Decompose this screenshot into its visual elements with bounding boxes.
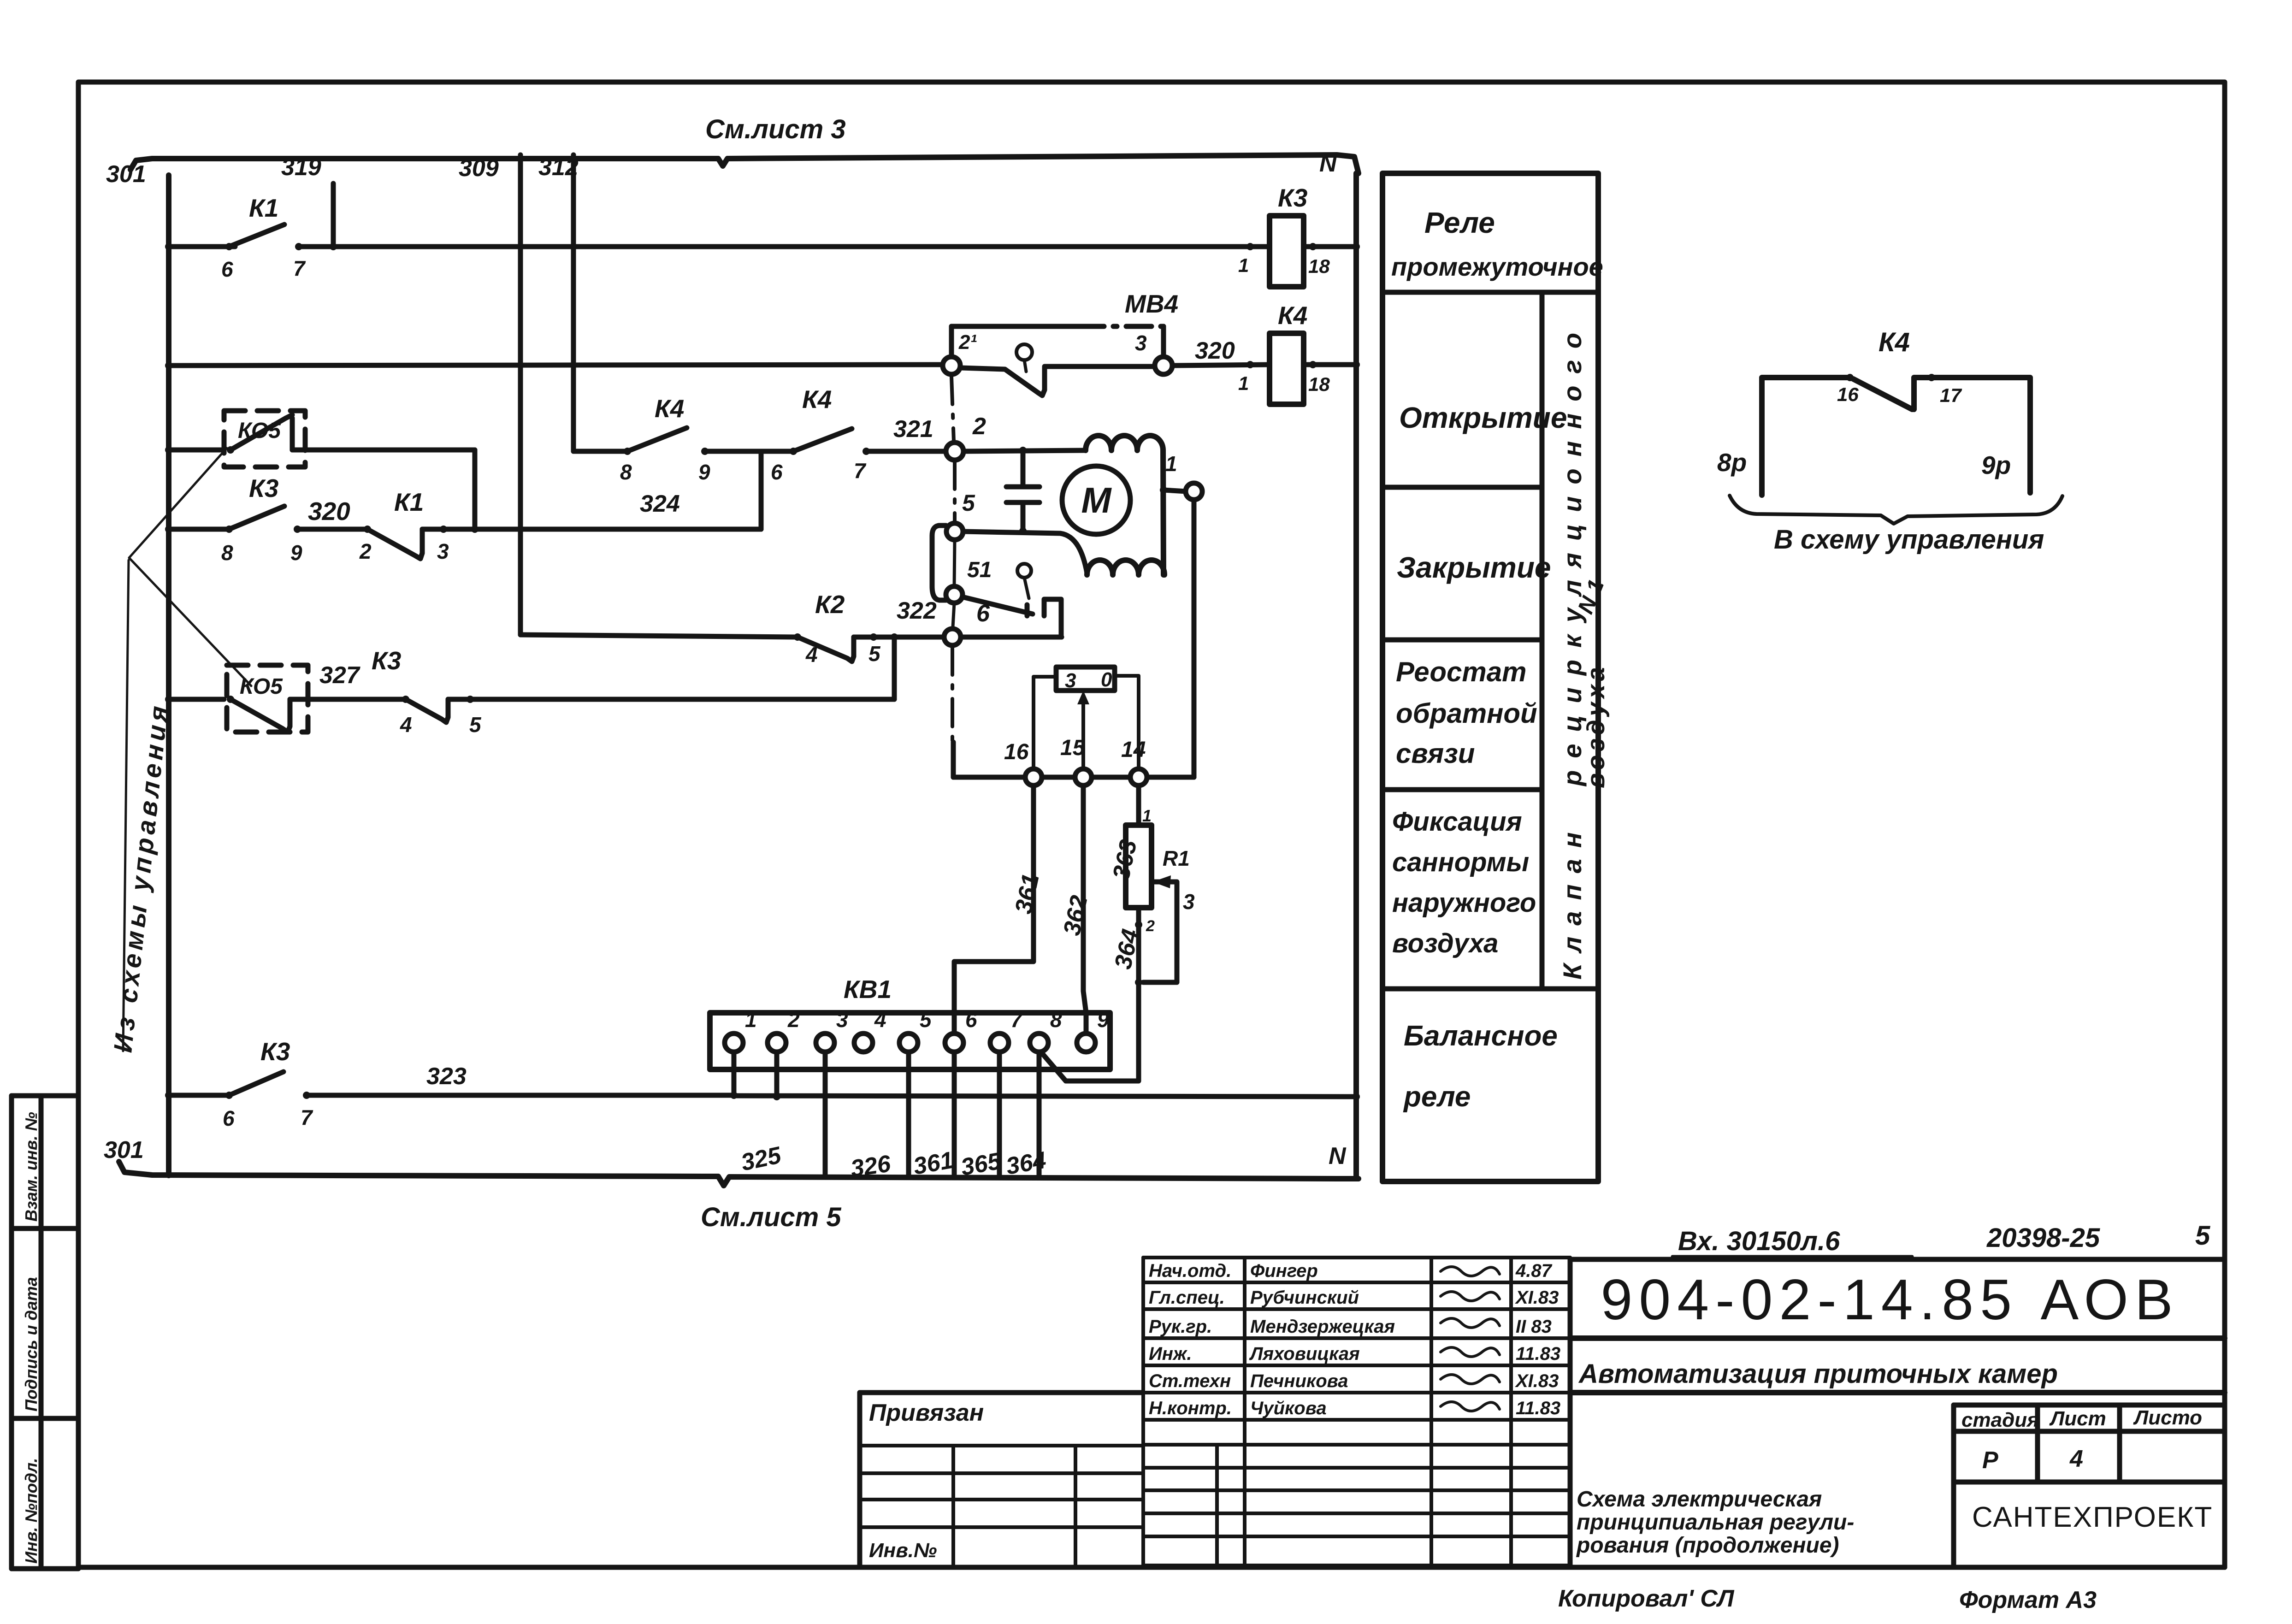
svg-text:К1: К1 xyxy=(249,194,278,222)
svg-text:1: 1 xyxy=(745,1008,757,1032)
svg-text:К3: К3 xyxy=(1278,183,1307,212)
svg-text:3: 3 xyxy=(437,539,449,563)
svg-text:Закрытие: Закрытие xyxy=(1397,551,1551,584)
svg-text:Реостат: Реостат xyxy=(1396,656,1526,687)
svg-text:320: 320 xyxy=(308,497,350,526)
svg-text:Копировал' СЛ: Копировал' СЛ xyxy=(1558,1585,1735,1612)
svg-text:Фиксация: Фиксация xyxy=(1392,807,1522,837)
svg-text:Вх. 30150л.6: Вх. 30150л.6 xyxy=(1678,1226,1840,1256)
svg-text:связи: связи xyxy=(1396,738,1475,769)
svg-text:5: 5 xyxy=(2195,1221,2210,1251)
svg-text:5: 5 xyxy=(868,642,881,666)
svg-text:Н.контр.: Н.контр. xyxy=(1149,1398,1232,1418)
svg-text:51: 51 xyxy=(967,558,992,582)
svg-text:8р: 8р xyxy=(1717,448,1747,477)
svg-text:Привязан: Привязан xyxy=(869,1400,984,1426)
svg-text:11.83: 11.83 xyxy=(1516,1344,1560,1364)
svg-text:КО5: КО5 xyxy=(240,674,283,699)
svg-text:7: 7 xyxy=(293,256,306,280)
svg-text:II 83: II 83 xyxy=(1516,1317,1552,1337)
svg-text:См.лист 3: См.лист 3 xyxy=(705,114,846,144)
svg-text:Схема электрическая: Схема электрическая xyxy=(1577,1487,1822,1512)
svg-text:Рук.гр.: Рук.гр. xyxy=(1149,1317,1212,1337)
svg-text:327: 327 xyxy=(319,662,360,689)
svg-text:К4: К4 xyxy=(1278,301,1307,330)
svg-text:К1: К1 xyxy=(394,488,424,516)
svg-text:К3: К3 xyxy=(260,1037,290,1066)
svg-text:9р: 9р xyxy=(1981,451,2011,479)
svg-text:8: 8 xyxy=(221,541,233,565)
svg-text:4: 4 xyxy=(2069,1446,2083,1472)
svg-text:6: 6 xyxy=(223,1106,235,1130)
svg-text:18: 18 xyxy=(1308,255,1330,277)
svg-text:16: 16 xyxy=(1837,384,1859,405)
svg-text:323: 323 xyxy=(426,1063,467,1090)
svg-text:наружного: наружного xyxy=(1392,888,1536,918)
svg-text:М: М xyxy=(1081,480,1112,520)
svg-text:N: N xyxy=(1329,1143,1347,1169)
svg-text:К2: К2 xyxy=(815,590,845,619)
svg-text:Открытие: Открытие xyxy=(1399,401,1567,434)
svg-text:324: 324 xyxy=(640,490,680,517)
svg-text:4: 4 xyxy=(400,713,412,737)
svg-text:4: 4 xyxy=(805,643,818,667)
svg-text:3: 3 xyxy=(836,1008,848,1032)
svg-text:8: 8 xyxy=(620,460,632,484)
svg-text:301: 301 xyxy=(106,161,146,188)
svg-text:промежуточное: промежуточное xyxy=(1391,252,1603,281)
svg-text:3: 3 xyxy=(1065,669,1076,692)
svg-text:5: 5 xyxy=(469,713,482,737)
svg-text:Лист: Лист xyxy=(2049,1407,2106,1430)
svg-text:1: 1 xyxy=(1165,452,1177,476)
svg-text:322: 322 xyxy=(897,597,937,624)
svg-text:Взам. инв. №: Взам. инв. № xyxy=(22,1112,41,1222)
svg-text:6: 6 xyxy=(771,460,783,484)
svg-text:реле: реле xyxy=(1403,1081,1471,1113)
svg-text:К3: К3 xyxy=(372,646,401,675)
svg-text:4: 4 xyxy=(874,1008,886,1032)
svg-text:N: N xyxy=(1319,150,1337,177)
svg-text:Формат А3: Формат А3 xyxy=(1959,1587,2097,1613)
svg-text:2: 2 xyxy=(972,413,986,440)
svg-text:18: 18 xyxy=(1308,373,1330,395)
svg-text:Ст.техн: Ст.техн xyxy=(1149,1371,1231,1391)
svg-text:15: 15 xyxy=(1060,736,1086,760)
svg-text:В схему управления: В схему управления xyxy=(1774,525,2044,555)
svg-text:К4: К4 xyxy=(1878,327,1910,357)
svg-text:Печникова: Печникова xyxy=(1250,1371,1348,1391)
svg-text:Инв. №подл.: Инв. №подл. xyxy=(22,1458,41,1564)
svg-text:Автоматизация приточных каме: Автоматизация приточных камер xyxy=(1578,1359,2058,1389)
svg-text:3: 3 xyxy=(1135,331,1147,355)
svg-text:7: 7 xyxy=(301,1105,313,1129)
svg-text:3: 3 xyxy=(1183,890,1195,914)
svg-text:Чуйкова: Чуйкова xyxy=(1250,1398,1327,1418)
svg-text:9: 9 xyxy=(290,541,302,565)
svg-text:R1: R1 xyxy=(1163,846,1190,870)
svg-text:Ляховицкая: Ляховицкая xyxy=(1249,1344,1360,1364)
svg-text:2: 2 xyxy=(1146,917,1155,935)
svg-text:1: 1 xyxy=(1238,254,1249,276)
svg-text:9: 9 xyxy=(1097,1008,1109,1032)
svg-text:саннормы: саннормы xyxy=(1392,847,1529,877)
svg-text:14: 14 xyxy=(1121,738,1146,762)
svg-text:17: 17 xyxy=(1940,384,1962,406)
svg-text:6: 6 xyxy=(221,257,233,281)
svg-text:320: 320 xyxy=(1195,337,1235,364)
svg-text:Гл.спец.: Гл.спец. xyxy=(1149,1287,1225,1308)
svg-text:5: 5 xyxy=(962,490,975,516)
svg-text:воздуха: воздуха xyxy=(1582,663,1610,788)
svg-text:301: 301 xyxy=(104,1137,144,1163)
svg-text:0: 0 xyxy=(1101,668,1112,691)
svg-text:Нач.отд.: Нач.отд. xyxy=(1149,1261,1231,1281)
svg-text:стадия: стадия xyxy=(1961,1409,2039,1431)
svg-text:XI.83: XI.83 xyxy=(1515,1287,1559,1308)
svg-text:6: 6 xyxy=(976,600,990,627)
svg-text:Инв.№: Инв.№ xyxy=(869,1539,937,1562)
svg-text:Рубчинский: Рубчинский xyxy=(1250,1287,1359,1308)
svg-text:16: 16 xyxy=(1004,740,1029,764)
svg-text:Листо: Листо xyxy=(2133,1406,2202,1429)
svg-text:К4: К4 xyxy=(655,394,684,423)
svg-text:9: 9 xyxy=(698,460,710,484)
svg-text:319: 319 xyxy=(281,154,321,181)
svg-text:Инж.: Инж. xyxy=(1149,1344,1192,1364)
svg-text:Балансное: Балансное xyxy=(1404,1020,1558,1052)
svg-text:обратной: обратной xyxy=(1396,698,1537,729)
svg-text:2: 2 xyxy=(787,1008,800,1032)
svg-text:2: 2 xyxy=(359,539,372,563)
svg-text:Подпись и дата: Подпись и дата xyxy=(22,1277,41,1411)
svg-text:2¹: 2¹ xyxy=(958,331,977,354)
svg-text:К3: К3 xyxy=(249,474,278,502)
svg-text:Реле: Реле xyxy=(1424,206,1495,239)
svg-text:Мендзержецкая: Мендзержецкая xyxy=(1250,1317,1395,1337)
svg-text:воздуха: воздуха xyxy=(1392,928,1498,958)
svg-text:МВ4: МВ4 xyxy=(1125,289,1178,318)
svg-text:САНТЕХПРОЕКТ: САНТЕХПРОЕКТ xyxy=(1972,1501,2213,1533)
svg-text:1: 1 xyxy=(1142,806,1152,825)
svg-text:11.83: 11.83 xyxy=(1516,1398,1560,1418)
svg-text:904-02-14.85 АОВ: 904-02-14.85 АОВ xyxy=(1601,1268,2179,1332)
svg-text:XI.83: XI.83 xyxy=(1515,1371,1559,1391)
svg-text:Фингер: Фингер xyxy=(1250,1261,1318,1281)
svg-text:6: 6 xyxy=(965,1008,977,1032)
svg-text:принципиальная регули-: принципиальная регули- xyxy=(1577,1510,1854,1535)
svg-text:См.лист 5: См.лист 5 xyxy=(701,1202,841,1232)
svg-text:309: 309 xyxy=(459,155,499,182)
svg-text:20398-25: 20398-25 xyxy=(1986,1223,2100,1253)
svg-text:7: 7 xyxy=(1010,1008,1023,1032)
svg-text:Клапан: Клапан xyxy=(1558,821,1587,980)
svg-text:312: 312 xyxy=(538,154,579,181)
svg-text:КВ1: КВ1 xyxy=(844,975,892,1004)
svg-text:К4: К4 xyxy=(802,385,832,413)
svg-text:326: 326 xyxy=(849,1150,893,1182)
svg-text:7: 7 xyxy=(854,459,867,483)
svg-text:8: 8 xyxy=(1050,1008,1062,1032)
svg-text:4.87: 4.87 xyxy=(1515,1261,1553,1281)
svg-text:321: 321 xyxy=(893,416,933,443)
svg-text:5: 5 xyxy=(920,1008,932,1032)
svg-text:1: 1 xyxy=(1238,372,1249,394)
svg-text:рования (продолжение): рования (продолжение) xyxy=(1576,1533,1839,1558)
svg-text:Р: Р xyxy=(1982,1447,1998,1474)
